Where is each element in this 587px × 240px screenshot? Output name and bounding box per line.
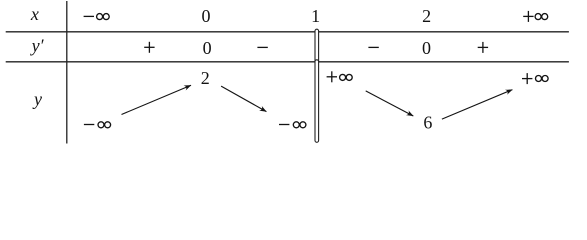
x row: -infinity	[84, 15, 94, 17]
svg-text:6: 6	[423, 112, 432, 132]
svg-text:x: x	[30, 4, 39, 24]
x row: +infinity	[523, 11, 533, 22]
horizontal line under x row	[6, 31, 569, 33]
vertical header separator line	[66, 1, 68, 144]
y' row: - sign right	[368, 46, 378, 48]
double bar (discontinuity at x=1), y' row stadium	[315, 29, 319, 64]
svg-text:2: 2	[422, 6, 431, 26]
y row: falling arrow 2	[221, 86, 266, 112]
y row: rising arrow 1	[122, 85, 192, 114]
y' row: + sign right	[478, 42, 488, 53]
svg-text:0: 0	[422, 38, 431, 58]
y row: +infinity top right	[522, 73, 532, 84]
y row: +infinity top after bar	[327, 71, 337, 82]
double bar (discontinuity at x=1), y row stadium	[315, 60, 319, 143]
svg-text:0: 0	[203, 38, 212, 58]
horizontal line under y' row	[6, 61, 569, 63]
y row: -infinity bottom left	[84, 124, 94, 126]
svg-text:y: y	[32, 89, 42, 109]
y row: rising arrow 4	[442, 90, 513, 120]
y' row: - sign left	[257, 46, 267, 48]
y' row: + sign left	[144, 42, 154, 53]
y row: -infinity bottom middle	[279, 124, 289, 126]
y row: falling arrow 3	[366, 91, 414, 116]
svg-text:0: 0	[202, 6, 211, 26]
svg-text:1: 1	[311, 6, 320, 26]
svg-text:2: 2	[201, 68, 210, 88]
svg-text:y′: y′	[30, 36, 45, 56]
